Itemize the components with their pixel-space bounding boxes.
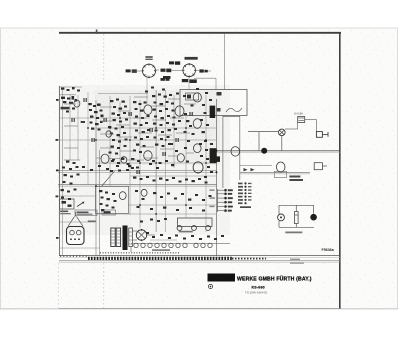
page bottom edge [0,307,398,309]
long supply line [217,151,340,153]
left boundary of power section [224,34,226,91]
fold mark vertical x104 bottom [103,263,105,308]
component cluster tone box [99,190,117,211]
main verticals [70,75,217,256]
fuse wiring [285,120,316,132]
component cluster lower band [61,158,210,200]
sheet top border line [59,32,341,34]
component cluster IF strip [152,94,207,150]
speaker terminal strip [210,189,233,212]
component cluster centre [108,99,128,155]
component cluster upper-left [61,87,81,113]
tube V17 [106,131,112,137]
magic eye leads [68,212,83,226]
output tube V18 [193,162,203,173]
svg-text:F5636a: F5636a [322,248,335,252]
tube V13 [119,192,126,200]
dial lamp L1 [279,129,286,136]
tube socket V1 top view [142,63,157,78]
junction dot [261,148,267,154]
label rows [289,176,303,182]
fold mark vertical x104 top [103,34,105,80]
bus annotation text [290,259,304,264]
svg-text:TS (DIN-1964 E): TS (DIN-1964 E) [245,291,267,295]
signal rail double top [58,171,217,173]
wire stubs dense band [64,97,196,160]
eye labels [60,211,96,223]
caption [285,232,302,234]
output transformer blob [213,156,220,162]
secondary winding [129,228,133,247]
sheet right border line [339,33,341,309]
voltage selector [314,163,327,170]
mains label box A [75,210,97,216]
tube V16 [74,100,80,107]
svg-text:Si 0,8A: Si 0,8A [294,112,303,116]
corner registration tick [96,30,98,35]
jack caption [179,231,193,233]
pickup input box [60,199,75,209]
IF transformer can 2 / output transformer [210,148,217,163]
rectifier tube V9 [274,162,286,178]
feed wires [240,166,310,174]
junction dots dense band [87,117,217,215]
heater bus left ticks [60,255,88,257]
tube V3 [144,105,152,115]
fold mark vertical x58 bottom [57,263,59,308]
tube V5 [193,93,201,102]
primary windings [111,228,121,247]
logo block (blacked out) [208,274,236,282]
rectifier bridge [136,229,146,241]
component cluster under IF row [82,158,134,173]
IF transformer can 1 [210,106,216,118]
volume pot arrow [102,171,115,186]
wire box [279,205,314,227]
labels right of V2 [199,69,207,72]
wire loop [248,132,282,151]
labels between V1 V2 [161,69,172,81]
capacitor bar symbols [72,98,192,174]
circled index mark [208,284,212,288]
aux terminal strip [238,182,252,208]
component cluster mid-left [81,103,104,131]
signal rail double lower [58,185,217,187]
tube V10 [177,154,184,162]
component cluster right-of-centre [133,101,150,153]
tube V11 [101,154,109,163]
antenna bus left [60,86,63,256]
main horizontals [60,87,216,248]
mains plug [316,132,328,138]
tube V4 [175,106,184,116]
maker name text [237,275,312,282]
tube V14 [141,189,147,196]
tube V7 [194,144,202,153]
motor M [278,214,285,221]
tube V8 [144,151,152,161]
tube V15 [231,147,240,157]
svg-text:WERKE GMBH FÜRTH (BAY.): WERKE GMBH FÜRTH (BAY.) [237,275,312,282]
capacitor C [295,212,299,224]
solder tick row [100,252,180,254]
wires at top tubes [130,70,216,90]
fuse holder box [294,112,305,123]
heater caption [152,249,170,251]
label pair left of V1 [126,69,137,72]
switch knob (filled) [310,214,317,221]
component cluster output area [133,176,212,212]
decoder sub-box [180,90,247,116]
heater bus base [59,260,340,262]
jack box [178,218,213,227]
mains label box B [102,210,116,215]
jack sockets [177,226,210,231]
decoder inner component [186,93,199,100]
tube V6 [193,119,201,129]
heater bus dashed segment [88,257,266,260]
label V1 name [145,56,152,60]
heater run coil row [131,243,230,247]
heater wiring row [140,218,224,240]
bus line 4 [59,261,340,263]
labels above V2 [169,57,198,65]
magic eye body [67,227,85,245]
transformer core [123,226,128,251]
pot arrow [77,202,85,207]
power section verticals [223,116,240,189]
edition note [245,291,267,295]
rectifier wires [131,231,155,252]
decoder terminal marks [217,92,243,112]
model number [252,285,265,289]
chassis bus line 2 [59,256,340,258]
chassis bus line 1 [59,255,340,257]
tube V12 small [121,157,127,164]
drawing number F5636a [322,248,335,252]
resistor hatch marks [56,87,214,239]
tone control box [95,187,128,214]
labels below V2 [163,76,197,83]
tube socket V2 top view [182,63,196,78]
scan blur haze over dense band [58,85,230,235]
svg-text:KS-660: KS-660 [252,285,265,289]
arrow marks [244,168,255,171]
